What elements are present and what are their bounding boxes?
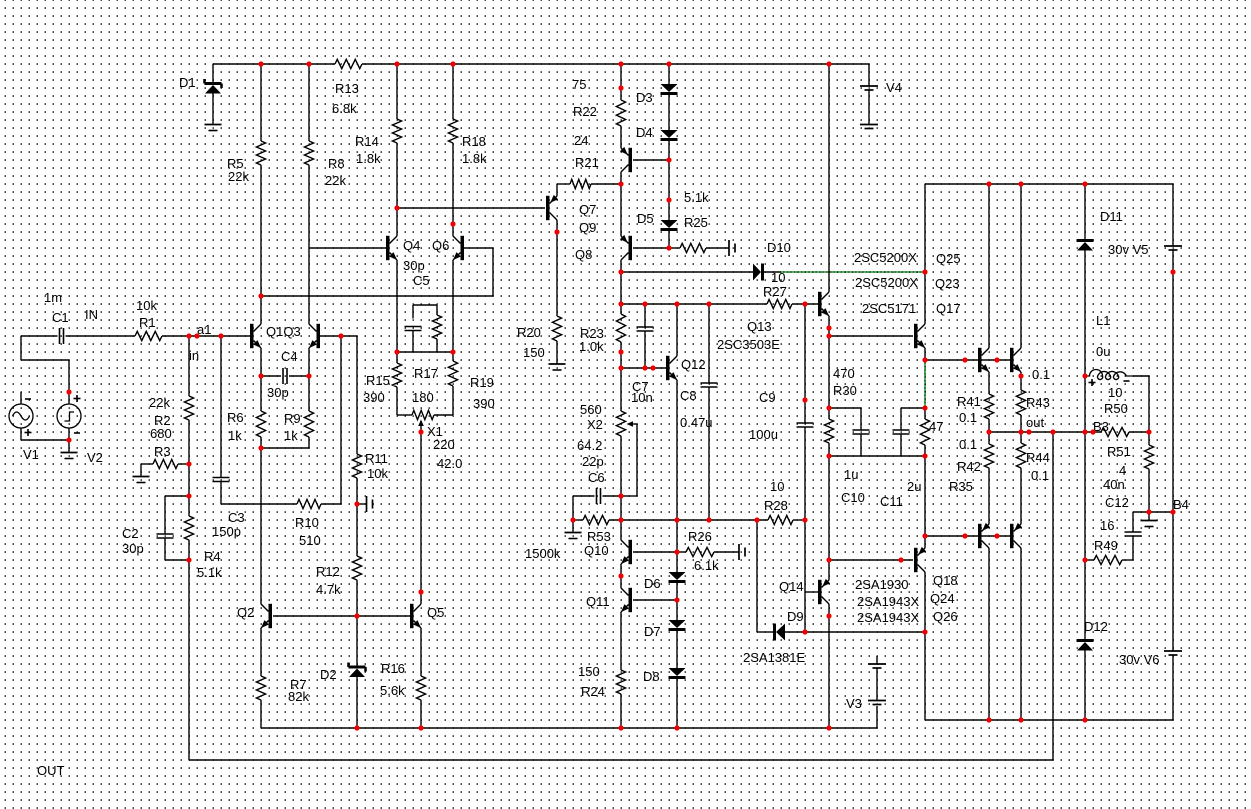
- svg-text:2SC5171: 2SC5171: [862, 301, 916, 316]
- svg-text:R24: R24: [581, 684, 605, 699]
- svg-text:150: 150: [578, 664, 600, 679]
- svg-text:4: 4: [1119, 463, 1126, 478]
- svg-text:R43: R43: [1026, 395, 1050, 410]
- svg-text:R28: R28: [764, 498, 788, 513]
- svg-text:560: 560: [580, 402, 602, 417]
- svg-text:C8: C8: [680, 388, 697, 403]
- svg-text:R50: R50: [1104, 401, 1128, 416]
- svg-text:Q24: Q24: [930, 591, 955, 606]
- svg-text:1k: 1k: [228, 428, 242, 443]
- svg-text:R17: R17: [414, 366, 438, 381]
- svg-text:30v V6: 30v V6: [1119, 652, 1159, 667]
- svg-text:Q10: Q10: [584, 543, 609, 558]
- svg-text:R22: R22: [573, 104, 597, 119]
- svg-text:2SA1943X: 2SA1943X: [857, 610, 919, 625]
- svg-text:220: 220: [433, 437, 455, 452]
- svg-text:C6: C6: [588, 470, 605, 485]
- svg-text:0.1: 0.1: [959, 410, 977, 425]
- svg-text:V4: V4: [886, 80, 902, 95]
- svg-text:22k: 22k: [149, 395, 170, 410]
- svg-text:R42: R42: [957, 459, 981, 474]
- svg-text:64.2: 64.2: [577, 438, 602, 453]
- svg-text:30p: 30p: [403, 258, 425, 273]
- svg-text:5.1k: 5.1k: [684, 190, 709, 205]
- svg-text:R1: R1: [139, 315, 156, 330]
- svg-text:5.1k: 5.1k: [197, 565, 222, 580]
- svg-text:V1: V1: [23, 447, 39, 462]
- svg-text:1.0k: 1.0k: [579, 339, 604, 354]
- svg-text:C12: C12: [1105, 495, 1129, 510]
- svg-text:4.7k: 4.7k: [316, 582, 341, 597]
- svg-text:0u: 0u: [1096, 344, 1110, 359]
- svg-text:R20: R20: [517, 325, 541, 340]
- svg-text:5.6k: 5.6k: [380, 683, 405, 698]
- svg-text:C10: C10: [841, 490, 865, 505]
- svg-text:1k: 1k: [284, 428, 298, 443]
- svg-text:L1: L1: [1096, 313, 1110, 328]
- svg-text:D10: D10: [767, 240, 791, 255]
- svg-text:470: 470: [833, 366, 855, 381]
- svg-text:OUT: OUT: [37, 763, 65, 778]
- svg-text:22k: 22k: [228, 169, 249, 184]
- svg-text:R13: R13: [335, 81, 359, 96]
- svg-text:Q7: Q7: [579, 202, 596, 217]
- svg-text:in: in: [189, 348, 199, 363]
- svg-text:R25: R25: [684, 215, 708, 230]
- svg-text:D3: D3: [636, 90, 653, 105]
- svg-text:30p: 30p: [267, 385, 289, 400]
- svg-text:390: 390: [473, 396, 495, 411]
- svg-text:R49: R49: [1094, 538, 1118, 553]
- svg-text:Q17: Q17: [936, 301, 961, 316]
- svg-text:1.8k: 1.8k: [462, 151, 487, 166]
- svg-text:Q4: Q4: [403, 238, 420, 253]
- svg-text:680: 680: [150, 426, 172, 441]
- svg-text:R15: R15: [366, 373, 390, 388]
- svg-text:R16: R16: [381, 661, 405, 676]
- svg-text:40n: 40n: [1103, 477, 1125, 492]
- svg-text:10: 10: [770, 479, 784, 494]
- svg-text:C2: C2: [122, 526, 139, 541]
- svg-text:R4: R4: [204, 549, 221, 564]
- svg-text:C9: C9: [759, 390, 776, 405]
- svg-text:IN: IN: [85, 307, 98, 322]
- svg-text:390: 390: [363, 390, 385, 405]
- svg-text:6.1k: 6.1k: [694, 558, 719, 573]
- svg-text:D11: D11: [1100, 209, 1123, 224]
- svg-text:D8: D8: [643, 669, 660, 684]
- svg-text:D5: D5: [637, 211, 654, 226]
- svg-text:10: 10: [1108, 385, 1122, 400]
- svg-text:R18: R18: [462, 134, 486, 149]
- svg-text:R8: R8: [328, 156, 345, 171]
- svg-text:0.1: 0.1: [1032, 367, 1050, 382]
- svg-text:180: 180: [412, 390, 434, 405]
- svg-text:V3: V3: [846, 696, 862, 711]
- svg-text:D6: D6: [644, 576, 661, 591]
- svg-text:Q26: Q26: [933, 609, 958, 624]
- svg-text:82k: 82k: [288, 689, 309, 704]
- svg-text:D9: D9: [787, 609, 804, 624]
- svg-text:1u: 1u: [844, 467, 858, 482]
- svg-text:2SA1930: 2SA1930: [855, 577, 909, 592]
- svg-text:C5: C5: [413, 273, 430, 288]
- svg-text:42.0: 42.0: [437, 456, 462, 471]
- svg-text:22p: 22p: [582, 454, 604, 469]
- svg-text:6.8k: 6.8k: [332, 101, 357, 116]
- svg-text:R30: R30: [833, 383, 857, 398]
- svg-text:D1: D1: [179, 75, 196, 90]
- svg-text:Q1Q3: Q1Q3: [266, 324, 301, 339]
- svg-text:150p: 150p: [212, 524, 241, 539]
- svg-text:R27: R27: [763, 284, 787, 299]
- svg-text:2SC5200X: 2SC5200X: [854, 250, 917, 265]
- svg-text:Q18: Q18: [933, 573, 958, 588]
- svg-text:30v V5: 30v V5: [1108, 242, 1148, 257]
- svg-text:R41: R41: [957, 394, 981, 409]
- svg-text:Q6: Q6: [432, 238, 449, 253]
- svg-text:R44: R44: [1026, 450, 1050, 465]
- svg-text:R12: R12: [316, 564, 340, 579]
- svg-text:R51: R51: [1107, 444, 1131, 459]
- svg-text:Q11: Q11: [586, 594, 610, 609]
- svg-text:2SA1381E: 2SA1381E: [743, 650, 805, 665]
- svg-text:R19: R19: [470, 375, 494, 390]
- svg-text:Q5: Q5: [427, 605, 444, 620]
- svg-text:R21: R21: [575, 155, 599, 170]
- svg-text:R53: R53: [587, 529, 611, 544]
- svg-text:100u: 100u: [749, 427, 778, 442]
- svg-text:R26: R26: [688, 529, 712, 544]
- svg-text:Q23: Q23: [935, 276, 960, 291]
- svg-text:2SA1943X: 2SA1943X: [857, 594, 919, 609]
- svg-text:0.1: 0.1: [1031, 468, 1049, 483]
- svg-text:1.8k: 1.8k: [356, 151, 381, 166]
- svg-text:1500k: 1500k: [525, 546, 561, 561]
- svg-text:Q9: Q9: [579, 220, 596, 235]
- svg-text:30p: 30p: [122, 541, 144, 556]
- svg-text:1m: 1m: [44, 290, 62, 305]
- svg-text:C4: C4: [281, 349, 298, 364]
- svg-text:75: 75: [572, 77, 586, 92]
- svg-text:10: 10: [771, 270, 785, 285]
- svg-text:Q12: Q12: [681, 357, 706, 372]
- svg-text:D2: D2: [320, 667, 337, 682]
- svg-text:V2: V2: [87, 450, 103, 465]
- svg-text:R9: R9: [284, 411, 301, 426]
- svg-text:R35: R35: [949, 479, 973, 494]
- svg-text:R11: R11: [365, 451, 388, 466]
- svg-text:0.1: 0.1: [959, 437, 977, 452]
- svg-text:0.47u: 0.47u: [680, 415, 713, 430]
- svg-text:Q25: Q25: [936, 251, 961, 266]
- svg-text:out: out: [1026, 415, 1044, 430]
- svg-text:B4: B4: [1173, 497, 1189, 512]
- svg-text:Q13: Q13: [747, 319, 772, 334]
- svg-text:C11: C11: [880, 494, 903, 509]
- svg-text:D4: D4: [636, 125, 653, 140]
- svg-text:510: 510: [299, 533, 321, 548]
- svg-text:Q14: Q14: [779, 579, 804, 594]
- svg-text:2SC5200X: 2SC5200X: [855, 275, 918, 290]
- svg-text:10k: 10k: [367, 466, 388, 481]
- svg-text:10k: 10k: [136, 298, 157, 313]
- svg-text:Q8: Q8: [575, 247, 592, 262]
- svg-text:22k: 22k: [325, 173, 346, 188]
- svg-text:R3: R3: [154, 444, 171, 459]
- svg-text:R10: R10: [295, 515, 319, 530]
- svg-text:D7: D7: [644, 624, 661, 639]
- svg-text:16: 16: [1100, 518, 1114, 533]
- svg-text:47: 47: [929, 419, 943, 434]
- svg-text:X2: X2: [587, 417, 603, 432]
- svg-text:2u: 2u: [907, 479, 921, 494]
- svg-text:R6: R6: [227, 410, 244, 425]
- svg-text:2SC3503E: 2SC3503E: [717, 337, 780, 352]
- svg-text:C3: C3: [228, 510, 245, 525]
- svg-text:Q2: Q2: [237, 605, 254, 620]
- svg-text:150: 150: [523, 345, 545, 360]
- svg-text:R14: R14: [355, 134, 379, 149]
- svg-text:D12: D12: [1084, 619, 1108, 634]
- svg-text:C1: C1: [52, 310, 69, 325]
- svg-text:10n: 10n: [631, 390, 653, 405]
- svg-text:24: 24: [574, 133, 588, 148]
